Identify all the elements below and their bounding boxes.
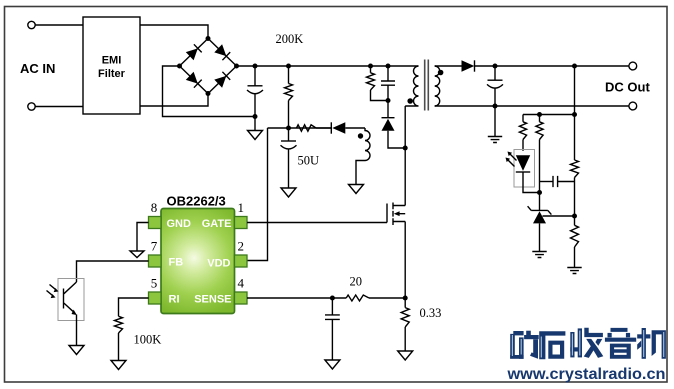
svg-text:2: 2 (238, 239, 245, 254)
node DC-Out terminal top (629, 62, 637, 70)
svg-text:SENSE: SENSE (194, 293, 231, 305)
wire GATE pin to mosfet (247, 222, 387, 224)
junction rail snubber-C (386, 64, 391, 69)
wire RI pin (119, 298, 149, 316)
resistor R2 aux (297, 125, 317, 131)
wire HV rail (237, 65, 419, 67)
logo glyph kuang (510, 331, 539, 359)
junction bridge top (206, 36, 211, 41)
wire DC- rail (435, 105, 629, 107)
wire EMI top to bridge (140, 25, 208, 39)
junction VDD node (286, 126, 291, 131)
resistor R10 100K (115, 316, 123, 333)
junction feedback line mid (537, 112, 542, 117)
svg-text:GATE: GATE (202, 218, 232, 230)
svg-text:50U: 50U (298, 154, 320, 168)
junction DC+ feedback (572, 64, 577, 69)
diode D5 aux rectifier (316, 127, 331, 129)
transistor Q1 MOSFET (386, 204, 388, 223)
opto light arrows (47, 285, 56, 296)
wire DC+ rail (475, 65, 629, 67)
EMI filter block (83, 17, 140, 114)
inductor T1 primary winding (405, 66, 418, 106)
junction DC- outcap (493, 104, 498, 109)
optocoupler transistor box (58, 279, 84, 321)
ground 100K (111, 361, 126, 370)
ground secondary earth (488, 137, 502, 143)
svg-text:OB2262/3: OB2262/3 (167, 194, 226, 209)
ground aux winding (349, 185, 364, 194)
junction bridge left (177, 64, 182, 69)
resistor R5 bias (539, 115, 541, 122)
pin 7 FB (149, 255, 162, 267)
op-amp U1 OB2262/3 body (161, 209, 235, 314)
wire FB pin to opto (77, 261, 149, 282)
node primary polarity dot (407, 98, 413, 104)
ground 50U cap (281, 188, 296, 197)
svg-text:7: 7 (151, 239, 158, 254)
resistor R8 20 (346, 295, 369, 301)
wire VDD node line (268, 127, 332, 129)
diode D2 bridge upper-right (214, 44, 226, 56)
diode D4 bridge lower-right (214, 76, 226, 88)
svg-text:0.33: 0.33 (420, 306, 442, 320)
node AC-IN terminal bottom (28, 103, 35, 110)
svg-text:VDD: VDD (207, 258, 230, 270)
pin 2 VDD (235, 255, 248, 267)
junction divider mid (572, 214, 577, 219)
svg-text:www.crystalradio.cn: www.crystalradio.cn (506, 366, 665, 383)
svg-text:GND: GND (167, 218, 192, 230)
capacitor C5 compensation (540, 181, 553, 183)
capacitor C6 sense filter (331, 298, 333, 315)
logo glyph ji (637, 328, 666, 359)
svg-text:8: 8 (151, 200, 158, 215)
svg-text:RI: RI (169, 293, 180, 305)
resistor R4 opto series (522, 115, 524, 122)
junction sense cap (330, 296, 335, 301)
resistor R3 snubber (370, 66, 372, 73)
svg-text:FB: FB (169, 257, 184, 269)
logo glyph shou (570, 328, 603, 358)
svg-text:5: 5 (151, 276, 158, 291)
resistor R1 200K (288, 66, 290, 84)
resistor R6 divider upper (571, 160, 579, 178)
svg-text:200K: 200K (276, 32, 304, 46)
pin 5 RI (149, 292, 162, 304)
resistor R7 divider lower (574, 216, 576, 225)
junction rail bulk-cap (253, 64, 258, 69)
node secondary polarity dot (438, 70, 444, 76)
wire TL431 ref (543, 215, 575, 217)
logo glyph yin (605, 328, 636, 359)
wire DC+ to divider (574, 66, 576, 160)
ground pin8 (130, 251, 144, 258)
junction source sense (403, 296, 408, 301)
capacitor C4 output electrolytic (494, 66, 496, 80)
pin 4 SENSE (235, 292, 248, 304)
junction feedback line right (572, 112, 577, 117)
svg-text:AC IN: AC IN (20, 61, 55, 76)
wire bridge negative return (163, 66, 256, 117)
inductor aux winding (356, 128, 370, 185)
node DC-Out terminal bottom (629, 102, 637, 110)
svg-text:1: 1 (238, 200, 245, 215)
node AC-IN terminal top (28, 21, 35, 28)
svg-text:DC Out: DC Out (605, 80, 650, 95)
ground divider earth (567, 268, 581, 274)
wire AC top to EMI (35, 24, 83, 26)
wire 20 to source node (369, 297, 405, 299)
wire primary to drain (404, 106, 406, 206)
node aux winding polarity dot (358, 133, 363, 138)
inductor T1 secondary winding (435, 66, 440, 106)
junction TL431 cathode (537, 190, 542, 195)
transistor Q2 opto phototransistor (63, 289, 65, 309)
junction rail 200K (286, 64, 291, 69)
junction drain snubber (403, 146, 408, 151)
pin 8 GND (149, 217, 162, 229)
junction bridge right (234, 64, 239, 69)
svg-text:20: 20 (350, 275, 363, 289)
diode D7 output rectifier (462, 60, 475, 71)
wire feedback top line (523, 114, 575, 116)
ground TL431 earth (532, 252, 546, 258)
svg-text:4: 4 (238, 276, 245, 291)
wire AC bottom to EMI (35, 106, 83, 108)
ground 0.33 (398, 351, 413, 360)
wire SENSE pin (247, 297, 346, 299)
capacitor C3 snubber (387, 66, 389, 81)
diode D6 snubber clamp (387, 101, 389, 118)
wire outcap to ground (494, 106, 496, 137)
capacitor C2 50U (288, 128, 290, 141)
junction DC+ outcap (493, 64, 498, 69)
wire bridge diamond (180, 39, 237, 94)
logo stroke highlights (512, 330, 663, 358)
ground opto emitter (69, 346, 84, 355)
diode D3 bridge lower-left (186, 72, 198, 84)
wire VDD to pin2 (247, 128, 268, 261)
ground sense cap (325, 360, 340, 369)
resistor R9 0.33 (404, 298, 406, 308)
LED emission arrows (508, 154, 517, 167)
diode D8 optocoupler LED (516, 155, 530, 171)
optocoupler LED box (514, 150, 535, 188)
pin 1 GATE (235, 217, 248, 229)
capacitor bulk electrolytic (254, 66, 256, 86)
junction bridge bottom (206, 91, 211, 96)
wire source to sense (404, 222, 406, 299)
svg-text:100K: 100K (134, 333, 162, 347)
core T1 (425, 60, 429, 111)
svg-text:EMI: EMI (102, 55, 122, 67)
junction rail snubber-R (368, 64, 373, 69)
svg-text:Filter: Filter (98, 68, 126, 80)
shunt regulator U2 TL431 (539, 193, 541, 211)
diode D1 bridge upper-left (186, 48, 198, 60)
wire EMI bottom to bridge (140, 94, 208, 107)
junction bulk-cap negative (253, 114, 258, 119)
junction snubber bottom (386, 98, 391, 103)
wire GND pin to ground (137, 223, 149, 252)
wire secondary top (435, 65, 462, 67)
ground bulk cap (254, 117, 256, 131)
logo glyph shi (539, 331, 565, 359)
